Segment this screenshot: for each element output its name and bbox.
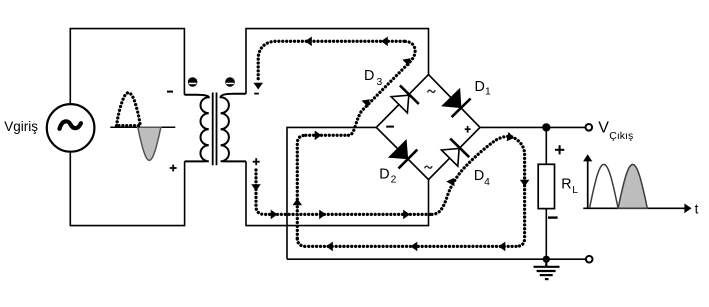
transformer T1 core [212, 93, 214, 166]
svg-text:2: 2 [391, 175, 397, 186]
polarity dot primary [188, 77, 198, 87]
label minus secondary top [254, 93, 259, 95]
wire primary loop top [70, 29, 184, 105]
label plus secondary bottom [253, 158, 260, 165]
current path arrow left 3 [326, 242, 333, 252]
current path: down right side to bottom return [516, 155, 525, 247]
terminal bottom [586, 256, 593, 263]
svg-text:V: V [598, 119, 609, 136]
input waveform positive half-cycle (dotted) [117, 93, 141, 126]
label minus left vertex [386, 126, 394, 128]
svg-text:D: D [475, 79, 485, 95]
output waveform hump 1 [590, 164, 619, 208]
output waveform hump 2 (gray) [618, 164, 647, 208]
output waveform vertical axis [583, 154, 592, 208]
svg-text:3: 3 [377, 77, 383, 88]
wire left vertex to ground rail [287, 127, 376, 259]
diode D4 [441, 139, 469, 167]
transformer T1 primary winding [184, 95, 208, 162]
transformer T1 secondary winding [221, 94, 246, 162]
current path arrow left top 2 [305, 37, 312, 47]
current path arrow right under left vertex [315, 131, 322, 141]
current path arrow at apex [507, 132, 516, 143]
current path: diagonal along D3 and top bend [349, 41, 416, 135]
current path arrow down right side [520, 180, 530, 187]
current path: from secondary + terminal down and right [256, 170, 432, 214]
label tilde top vertex [428, 90, 436, 92]
current path arrow right 3 [403, 210, 410, 220]
diode D3 [391, 85, 419, 113]
current path: rise past D4 to top of right side [432, 136, 525, 214]
current path arrow diagonal lower [362, 96, 374, 108]
current path arrow right 2 [319, 210, 326, 220]
ground rail wire [287, 258, 586, 260]
svg-text:L: L [572, 185, 578, 196]
current path arrow left 1 [499, 242, 506, 252]
wire bridge to output terminal [480, 126, 586, 128]
label plus load [555, 145, 564, 154]
wire junction to resistor [545, 127, 547, 164]
terminal Vcikis [586, 124, 593, 131]
input waveform negative half-cycle (gray) [138, 127, 161, 160]
current path arrow right 1 [271, 210, 278, 220]
current path: rightward under left vertex [306, 134, 349, 137]
svg-text:D: D [364, 68, 374, 84]
wire resistor to ground rail [545, 209, 547, 260]
svg-text:4: 4 [484, 177, 490, 188]
resistor RL [538, 164, 554, 208]
svg-text:D: D [474, 168, 484, 184]
current path: top return to secondary minus [258, 41, 404, 82]
current path arrow left top 1 [381, 37, 388, 47]
current path: up middle [297, 135, 306, 238]
current path arrow diagonal upper [402, 55, 414, 67]
polarity dot secondary [225, 77, 235, 87]
current path arrow up middle [293, 199, 303, 206]
current path arrow down at + terminal [251, 184, 261, 191]
svg-text:Vgiriş: Vgiriş [4, 119, 38, 134]
label plus right vertex [465, 126, 471, 133]
diode D2 [390, 141, 418, 169]
voltage source Vgiris [47, 104, 95, 152]
svg-text:R: R [561, 176, 571, 192]
svg-text:1: 1 [485, 86, 491, 97]
wire primary loop bottom [70, 152, 184, 226]
wire secondary bottom to bridge [246, 161, 429, 225]
output waveform horizontal axis [583, 204, 691, 214]
diode D1 [443, 90, 471, 118]
label minus load [548, 216, 558, 218]
label minus primary top [167, 91, 173, 93]
junction node output [542, 123, 550, 131]
ground symbol [534, 259, 560, 279]
svg-text:D: D [379, 166, 389, 182]
input waveform axis [110, 126, 175, 128]
current path arrow left 2 [411, 242, 418, 252]
label tilde bottom vertex [425, 166, 432, 168]
svg-text:t: t [695, 201, 699, 216]
junction node ground [543, 256, 550, 263]
current path arrow up-right near D4 [446, 176, 458, 187]
bridge diamond [376, 75, 480, 180]
wire secondary top to bridge [246, 29, 429, 94]
current path: bottom return run leftward [297, 238, 516, 246]
svg-text:Çıkış: Çıkış [609, 130, 633, 142]
label plus primary bottom [170, 165, 177, 172]
current path arrow down at secondary minus [253, 83, 263, 90]
